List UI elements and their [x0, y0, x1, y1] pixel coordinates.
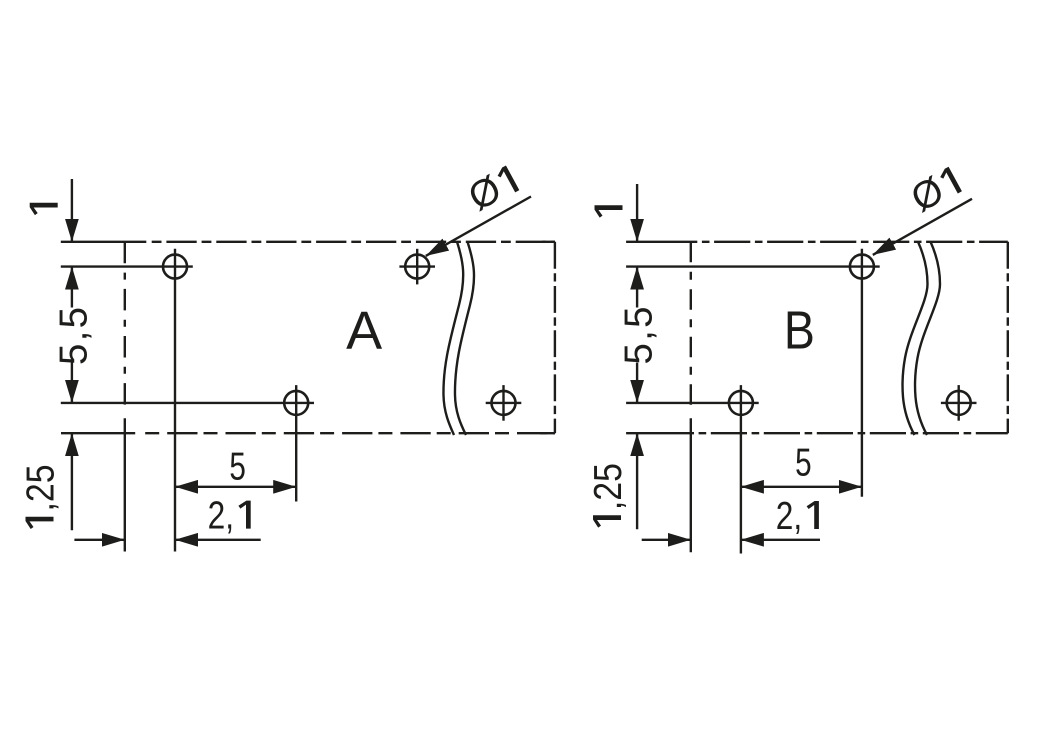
svg-text:5,5: 5,5	[618, 307, 661, 365]
svg-text:2,: 2,	[776, 495, 802, 538]
svg-text:B: B	[784, 301, 815, 361]
svg-text:5,5: 5,5	[52, 307, 95, 365]
svg-text:,25: ,25	[20, 464, 63, 511]
svg-text:5: 5	[229, 446, 246, 489]
svg-text:,25: ,25	[587, 463, 630, 510]
svg-text:A: A	[346, 301, 382, 361]
svg-text:5: 5	[795, 442, 812, 485]
svg-text:2,: 2,	[208, 495, 234, 538]
